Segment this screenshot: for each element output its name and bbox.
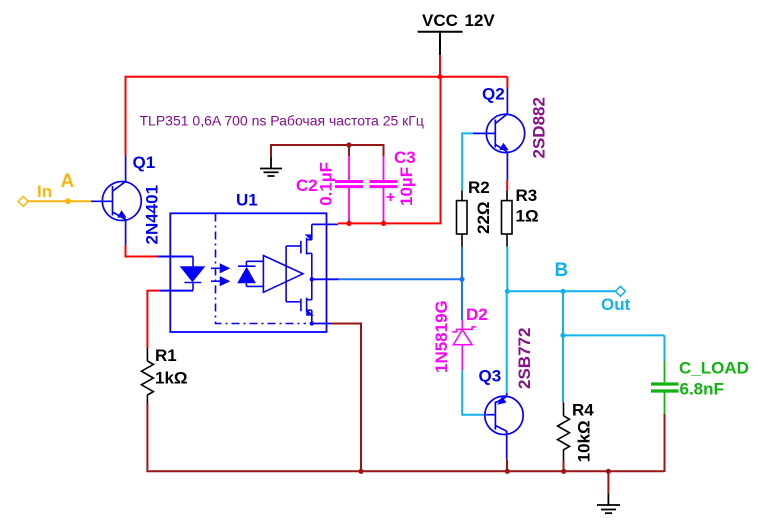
wire Q2 base cyan elbow — [462, 133, 473, 190]
wire R4 bottom dark red stub — [563, 461, 565, 471]
svg-text:2SB772: 2SB772 — [515, 328, 534, 389]
wire U1 GND pin dark red — [332, 324, 361, 472]
svg-text:TLP351 0,6A 700 ns Рабочая час: TLP351 0,6A 700 ns Рабочая частота 25 кГ… — [140, 113, 424, 129]
wire Q3 collector dark red stub — [506, 460, 508, 472]
svg-text:R1: R1 — [155, 346, 177, 365]
wire C3 bottom red stub — [383, 221, 385, 224]
wire VCC top rail — [126, 76, 508, 78]
junction A dot — [65, 198, 71, 204]
transistor Q2 — [473, 87, 525, 181]
junction R2 bottom — [459, 277, 464, 282]
U1 gate drive lines — [286, 246, 301, 302]
transistor Q3 — [485, 393, 523, 460]
wire Q1 emitter to U1 LED red part — [126, 245, 158, 257]
capacitor C3 — [370, 156, 398, 221]
wire In yellow — [28, 200, 91, 202]
U1 upper MOSFET — [301, 234, 313, 254]
C3 polarity plus — [387, 193, 395, 201]
wire node B net cyan — [507, 247, 665, 403]
capacitor C2 — [335, 156, 363, 221]
svg-text:A: A — [61, 171, 75, 192]
U1 lower MOSFET — [301, 298, 314, 316]
wire VCC right drop to U1 — [338, 77, 441, 224]
wire C_LOAD to ground rail — [664, 414, 666, 472]
junction node B load tap — [560, 333, 565, 338]
svg-text:R3: R3 — [516, 186, 538, 205]
power symbol VCC — [418, 32, 463, 56]
svg-text:Q3: Q3 — [479, 367, 502, 386]
U1 dash-dot isolation line — [216, 214, 307, 324]
wire decoupling ground net dark red — [271, 145, 384, 158]
U1 internal output rail — [311, 224, 313, 323]
ground symbol top — [260, 158, 282, 177]
wire U1 LED cathode to R1 red part — [147, 291, 159, 348]
junction C2 top — [346, 142, 351, 147]
junction ground stub — [606, 469, 611, 474]
svg-text:12V: 12V — [465, 11, 496, 30]
resistor R4 — [558, 402, 570, 461]
svg-text:R2: R2 — [468, 178, 490, 197]
svg-text:Out: Out — [601, 295, 631, 314]
U1 pin GND bottom — [312, 323, 332, 325]
junction node B left — [505, 289, 510, 294]
wire R1 to ground rail — [146, 403, 148, 470]
resistor R2 — [457, 190, 468, 246]
transistor Q1 — [91, 156, 141, 246]
svg-text:In: In — [37, 182, 52, 201]
junction node B center — [560, 289, 565, 294]
resistor R3 — [502, 190, 513, 246]
wire Q1 emitter to U1 LED blue part — [157, 256, 193, 258]
wire ground rail bottom — [146, 470, 664, 472]
svg-text:C2: C2 — [296, 176, 318, 195]
U1 GND pin junction — [310, 321, 314, 325]
port In diamond — [18, 196, 28, 206]
wire VCC left drop — [125, 76, 127, 156]
svg-text:Q2: Q2 — [482, 85, 505, 104]
wire ground stub bottom — [607, 471, 609, 493]
U1 pin VDD top — [312, 223, 338, 225]
U1 pin output middle — [312, 278, 339, 280]
capacitor C_LOAD — [651, 361, 679, 414]
ground symbol bottom — [597, 493, 620, 513]
junction C2 bottom on VDD wire — [346, 221, 351, 226]
U1 light arrows — [211, 265, 229, 286]
junction Q3 collector on rail — [505, 469, 510, 474]
svg-text:VCC: VCC — [422, 11, 458, 30]
svg-text:10kΩ: 10kΩ — [575, 420, 594, 462]
svg-text:Q1: Q1 — [133, 153, 156, 172]
svg-text:6.8nF: 6.8nF — [680, 380, 724, 399]
wire U1 LED cathode blue part — [160, 290, 193, 292]
wire U1 output net blue — [339, 247, 462, 321]
diode D2 — [452, 320, 476, 370]
port Out diamond — [615, 286, 625, 296]
junction U1 gnd wire on rail — [358, 469, 363, 474]
svg-text:10µF: 10µF — [397, 167, 416, 206]
U1 LED emitter — [181, 257, 203, 291]
svg-text:0.1µF: 0.1µF — [317, 162, 336, 206]
svg-text:B: B — [555, 260, 569, 281]
svg-text:2SD882: 2SD882 — [530, 97, 549, 158]
svg-text:2N4401: 2N4401 — [143, 185, 162, 245]
U1 photodiode — [238, 261, 263, 286]
svg-text:U1: U1 — [236, 190, 258, 209]
resistor R1 — [141, 348, 153, 403]
wire VCC stub red — [439, 55, 441, 76]
wire Q2 collector red stub — [506, 77, 508, 88]
junction C3 bottom on VDD wire — [381, 221, 386, 226]
svg-text:1N5819G: 1N5819G — [432, 300, 451, 373]
svg-text:D2: D2 — [466, 305, 488, 324]
svg-text:C3: C3 — [394, 148, 416, 167]
U1 amplifier triangle — [263, 256, 303, 293]
junction VCC rail — [437, 74, 442, 79]
wire C2 bottom red stub — [348, 221, 350, 224]
svg-text:1Ω: 1Ω — [516, 207, 539, 226]
wire D2 to Q3 base cyan — [462, 370, 486, 414]
svg-text:R4: R4 — [572, 401, 594, 420]
junction R4 on rail — [561, 469, 566, 474]
svg-text:22Ω: 22Ω — [474, 201, 493, 234]
wire R3 top red stub — [506, 180, 508, 190]
svg-text:1kΩ: 1kΩ — [155, 369, 188, 388]
svg-text:C_LOAD: C_LOAD — [679, 359, 749, 378]
U1 output pin junction — [310, 277, 314, 281]
op-amp U1 optocoupler box — [170, 213, 326, 332]
